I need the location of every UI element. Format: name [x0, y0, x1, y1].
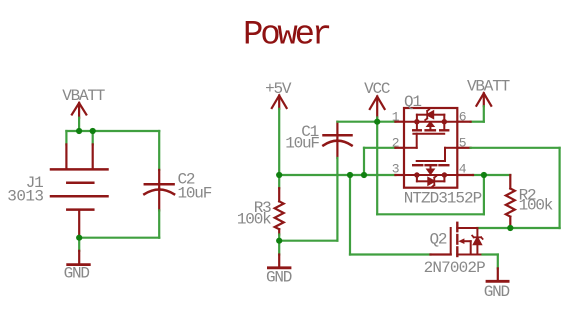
wire pin4 riser: [483, 175, 485, 214]
wire VCC down: [376, 122, 378, 215]
svg-text:3: 3: [392, 161, 400, 176]
svg-text:GND: GND: [484, 283, 510, 301]
resistor R2: [506, 175, 515, 228]
svg-text:10uF: 10uF: [178, 185, 212, 203]
svg-text:6: 6: [459, 109, 467, 124]
svg-text:5: 5: [459, 136, 467, 151]
svg-text:GND: GND: [266, 269, 292, 287]
wire C2 bottom: [158, 210, 160, 237]
junction VCC/C1/pin1: [374, 119, 380, 125]
wire VCC stem: [376, 118, 378, 122]
svg-text:VBATT: VBATT: [467, 78, 510, 96]
transistor Q2: [451, 223, 483, 256]
Q2 gate stub: [431, 253, 451, 255]
wire to GND (R3): [278, 241, 280, 255]
junction pin4/R2: [481, 172, 487, 178]
wire to J1 pin 1: [65, 131, 67, 144]
wire R3 bottom: [278, 235, 280, 241]
wire C1 bottom: [336, 158, 338, 241]
Q2 arrow head: [458, 238, 464, 244]
svg-text:Q2: Q2: [430, 230, 447, 248]
svg-text:NTZD3152P: NTZD3152P: [404, 189, 482, 207]
supply VCC arrow: [370, 97, 385, 118]
svg-text:3013: 3013: [7, 188, 43, 206]
supply VBATT (left) arrow: [72, 103, 86, 118]
junction +5V/R3: [276, 172, 282, 178]
Q2 body diode: [472, 236, 482, 245]
wire pin5 down right edge: [558, 148, 560, 228]
wire J1- to C2 bottom: [79, 237, 159, 239]
wire pin2 branch vertical: [363, 148, 365, 175]
pin 4 stub: [457, 174, 473, 176]
wire VBATT stem: [78, 118, 80, 131]
wire +5V rail to pin 3: [279, 174, 395, 176]
wire to J1 pin 2: [92, 131, 94, 144]
junction R3/C1/GND: [276, 238, 282, 244]
svg-text:2: 2: [392, 136, 400, 151]
wire Q2 source down: [497, 255, 499, 269]
op Q1 box: [404, 108, 457, 188]
svg-text:VBATT: VBATT: [62, 87, 105, 105]
capacitor C2: [144, 170, 174, 211]
junction VBATT/pin2: [90, 128, 96, 134]
Q1-A body arrow: [426, 121, 436, 127]
wire R3 top: [278, 175, 280, 188]
wire to GND (left): [78, 238, 80, 251]
svg-text:100k: 100k: [237, 210, 271, 228]
junction Q2 gate branch: [347, 172, 353, 178]
wire pin4 to junction: [473, 174, 484, 176]
svg-text:GND: GND: [64, 265, 90, 283]
wire junction to R2 top: [484, 174, 510, 176]
wire VCC to pin 4 (bottom run): [377, 213, 484, 215]
Q1-B body arrow: [426, 169, 436, 176]
Q1-A zener diode: [425, 109, 433, 120]
wire Q2 gate vertical: [349, 175, 351, 255]
mosfet Q1-B (bottom): [404, 148, 457, 182]
junction R2/Q2 drain: [507, 225, 513, 231]
junction pin2 branch: [361, 172, 367, 178]
ground GND (R3): [268, 255, 290, 268]
svg-text:10uF: 10uF: [285, 135, 319, 153]
wire C2 top: [158, 131, 160, 170]
capacitor C1: [323, 122, 351, 158]
wire VCC rail pin 1: [337, 121, 395, 123]
svg-text:4: 4: [459, 161, 467, 176]
connector J1 battery symbol: [51, 144, 108, 237]
wire pin2 horizontal: [364, 147, 395, 149]
pin 5 stub: [457, 147, 470, 149]
wire C1 bottom run: [279, 240, 337, 242]
wire VBATT right stem: [483, 106, 485, 122]
ground GND (Q2): [487, 268, 508, 281]
wire +5V stem: [278, 109, 280, 175]
svg-text:Q1: Q1: [404, 93, 421, 111]
svg-text:1: 1: [392, 109, 400, 124]
pin 2 stub: [395, 147, 404, 149]
junction VBATT/arrow: [76, 128, 82, 134]
supply VBATT (right) arrow: [476, 93, 491, 106]
wire VBATT to pin 6: [471, 121, 484, 123]
wire Q2 source: [483, 253, 498, 255]
mosfet Q1-A (top): [404, 115, 457, 148]
ground GND (left): [68, 251, 90, 265]
wire R2 bottom to Q2 drain: [477, 227, 510, 229]
wire Q2 gate horizontal: [350, 253, 431, 255]
resistor R3: [275, 188, 284, 234]
pin 1 stub: [395, 121, 404, 123]
svg-text:Power: Power: [243, 17, 330, 55]
pin 3 stub: [395, 174, 404, 176]
wire pin5 right: [471, 147, 560, 149]
pin 6 stub: [457, 121, 470, 123]
junction J1-/C2/GND: [76, 235, 82, 241]
svg-text:2N7002P: 2N7002P: [424, 259, 486, 277]
wire pin5 to R2 bottom: [510, 227, 559, 229]
supply +5V arrow: [272, 96, 287, 109]
wire VBATT rail: [66, 130, 159, 132]
svg-text:100k: 100k: [519, 196, 553, 214]
Q1-B zener diode: [428, 176, 436, 187]
